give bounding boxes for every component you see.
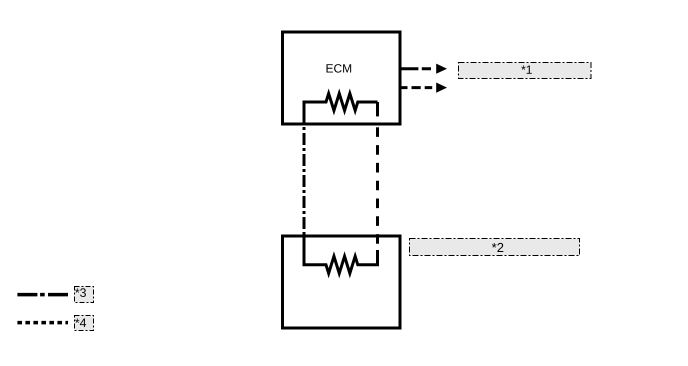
legend dashed line sample (*4) [17, 321, 68, 325]
svg-text:*2: *2 [492, 240, 504, 255]
ECM box U1 [283, 32, 401, 124]
resistor R1 (inside ECM) with solid leads [304, 94, 378, 126]
arrow 1 (dashed arrow to *1) [400, 64, 447, 74]
svg-text:*4: *4 [75, 316, 87, 330]
svg-text:ECM: ECM [325, 61, 352, 75]
svg-text:*1: *1 [521, 63, 533, 77]
sensor box (lower component) [283, 236, 401, 328]
legend label box *3 [75, 286, 94, 303]
wire: left vertical dash-dot connector (type *3) [303, 127, 306, 237]
label box *2 [410, 239, 580, 256]
legend dash-dot line sample (*3) [17, 293, 69, 297]
arrow 2 (dashed arrow) [400, 83, 447, 93]
wire: right vertical dashed connector (type *4) [376, 102, 379, 116]
svg-text:*3: *3 [75, 286, 87, 300]
legend label box *4 [75, 316, 94, 331]
resistor R2 (inside sensor box) with solid leads [304, 237, 378, 274]
label box *1 [459, 63, 592, 79]
